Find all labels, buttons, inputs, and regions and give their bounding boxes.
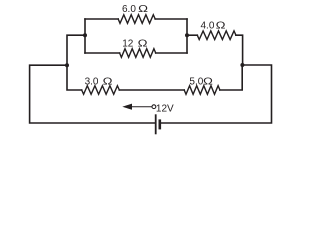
node B junction (240, 63, 244, 67)
wire top rail right segment (155, 18, 187, 20)
wire bottom rail right segment (156, 52, 187, 54)
wire node B to right rail (160, 65, 272, 123)
wire right tap from parallel box to 4.0 ohm (187, 34, 197, 36)
resistor 5.0 ohm (184, 86, 220, 95)
svg-text:Ω: Ω (216, 20, 227, 31)
svg-text:12: 12 (122, 38, 134, 49)
resistor 12 ohm (120, 49, 156, 58)
wire 5.0 ohm right to node B (220, 65, 242, 90)
svg-text:4.0: 4.0 (201, 20, 215, 31)
svg-text:V: V (167, 103, 174, 114)
resistor 3.0 ohm (82, 86, 120, 95)
wire left tap from node A to parallel box (67, 35, 85, 65)
svg-text:5.0: 5.0 (189, 76, 203, 87)
wire between 3.0 ohm and 5.0 ohm (119, 89, 184, 91)
arrow pointing to battery positive terminal (130, 106, 152, 108)
svg-text:Ω: Ω (138, 38, 149, 49)
resistor 6.0 ohm (118, 15, 155, 24)
wire node A to far-left rail (30, 65, 156, 123)
battery negative plate (short thick) (159, 119, 162, 129)
wire parallel-box left vertical (84, 19, 86, 53)
svg-text:6.0: 6.0 (122, 4, 136, 15)
node right parallel junction (185, 33, 189, 37)
node A junction (65, 63, 69, 67)
wire parallel-box right vertical (186, 19, 188, 53)
svg-text:Ω: Ω (203, 76, 214, 87)
terminal circle (152, 105, 156, 109)
battery positive plate (long) (155, 114, 157, 134)
node left parallel junction (83, 33, 87, 37)
wire top rail left segment (85, 18, 118, 20)
svg-text:Ω: Ω (103, 76, 114, 87)
wire bottom rail left segment (85, 52, 120, 54)
svg-text:3.0: 3.0 (85, 76, 99, 87)
resistor 4.0 ohm (197, 31, 236, 40)
wire node A down to 3.0 ohm row (67, 65, 82, 90)
wire 4.0 ohm right down to node B (236, 35, 243, 65)
svg-text:12: 12 (156, 103, 168, 114)
svg-text:Ω: Ω (138, 4, 149, 15)
